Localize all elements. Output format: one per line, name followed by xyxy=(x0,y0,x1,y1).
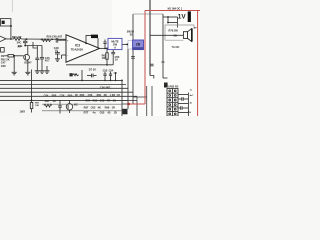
capacitor C52 xyxy=(103,72,106,81)
capacitor C53 xyxy=(131,57,135,59)
capacitor C42 vertical xyxy=(35,46,39,69)
svg-text:4U7: 4U7 xyxy=(45,59,50,63)
svg-text:1W2: 1W2 xyxy=(20,109,26,113)
wire vertical x163 xyxy=(162,14,164,78)
svg-text:1V: 1V xyxy=(178,14,187,21)
wire to speaker xyxy=(150,34,183,36)
svg-text:C6: C6 xyxy=(117,93,121,97)
background paper xyxy=(0,0,200,116)
wire xyxy=(178,103,188,105)
svg-text:C58: C58 xyxy=(60,94,65,98)
transistor Q6 xyxy=(66,101,72,114)
wire output xyxy=(100,47,109,49)
svg-text:4K: 4K xyxy=(98,106,101,110)
svg-text:R95: R95 xyxy=(93,98,98,102)
wire vertical x150 xyxy=(149,0,151,76)
svg-text:2K: 2K xyxy=(104,93,107,97)
svg-text:4N7: 4N7 xyxy=(45,99,50,103)
capacitor C43 xyxy=(23,39,28,46)
bus wire 3 xyxy=(0,87,128,89)
svg-text:1D: 1D xyxy=(114,111,117,115)
node M3 junction dot xyxy=(110,80,112,82)
wire row xyxy=(42,110,122,112)
svg-text:C63: C63 xyxy=(91,106,96,110)
op-amp U2 (small, left edge) xyxy=(0,34,6,43)
svg-text:BC: BC xyxy=(74,103,78,107)
wire xyxy=(33,42,37,48)
resistor R62 vertical xyxy=(106,48,108,64)
svg-text:R93: R93 xyxy=(80,93,85,97)
svg-text:1U: 1U xyxy=(55,48,58,52)
terminal block left xyxy=(1,48,5,53)
wire node row xyxy=(25,45,42,47)
svg-text:C64: C64 xyxy=(44,94,49,98)
svg-text:1u: 1u xyxy=(188,110,191,114)
svg-text:R94: R94 xyxy=(86,98,91,102)
connector P2 stack xyxy=(167,89,178,117)
capacitor C49 small xyxy=(103,40,106,49)
ground G1 xyxy=(12,72,17,75)
node H junction dot xyxy=(127,44,129,46)
svg-text:4n: 4n xyxy=(93,111,96,115)
svg-text:R88: R88 xyxy=(52,94,57,98)
op-amp IC3 triangle xyxy=(66,35,100,62)
svg-text:C65: C65 xyxy=(100,111,105,115)
pin - wire xyxy=(62,54,67,56)
capacitor C62 xyxy=(58,100,62,113)
svg-text:M1 1N4 OC 1: M1 1N4 OC 1 xyxy=(168,7,183,10)
dark blob bottom xyxy=(123,109,128,115)
capacitor C57 xyxy=(150,64,153,66)
capacitor C51 horizontal xyxy=(87,74,97,78)
svg-text:R99: R99 xyxy=(105,106,110,110)
svg-text:3B: 3B xyxy=(174,34,177,38)
ground G5 xyxy=(55,59,60,62)
wire vertical x188 xyxy=(187,93,189,117)
svg-text:R97: R97 xyxy=(84,106,89,110)
wire window corner gray xyxy=(133,13,163,15)
svg-text:R90: R90 xyxy=(68,94,73,98)
wire corner xyxy=(163,77,168,79)
ground G3 xyxy=(35,68,40,73)
resistor R46 xyxy=(14,38,22,41)
node I junction dot xyxy=(167,16,169,18)
red node dot xyxy=(127,103,130,106)
node M4 junction dot xyxy=(115,80,117,82)
bus wire 5 xyxy=(0,95,137,97)
wire rows right of connector xyxy=(178,94,188,96)
resistor R53 horizontal xyxy=(4,55,13,57)
wire corner xyxy=(150,76,154,79)
pin + wire xyxy=(62,39,66,41)
svg-text:BC547: BC547 xyxy=(24,61,32,64)
capacitor C74 xyxy=(178,106,188,110)
svg-text:4R: 4R xyxy=(107,98,110,102)
svg-text:4R: 4R xyxy=(73,72,76,76)
input terminal box J1 xyxy=(1,19,11,26)
svg-text:1 3R: 1 3R xyxy=(110,93,116,97)
wire faint top-left xyxy=(11,0,13,12)
wire vertical x133 xyxy=(132,14,134,104)
blue tag ZB xyxy=(126,40,143,50)
svg-text:R78 2W: R78 2W xyxy=(169,28,179,32)
resistor R87 vertical xyxy=(30,102,33,112)
bottom mid: resistor R86 xyxy=(44,104,52,107)
node C junction dot xyxy=(26,38,28,40)
capacitor C54 xyxy=(109,72,112,81)
svg-text:R50 C45 4U7: R50 C45 4U7 xyxy=(47,35,63,39)
ground G4 xyxy=(39,66,44,73)
bus wire 1 xyxy=(0,79,122,81)
svg-text:TDA2030: TDA2030 xyxy=(71,47,84,51)
wire xyxy=(167,17,169,23)
node E junction dot xyxy=(85,43,87,45)
capacitor C50 vertical xyxy=(111,50,115,65)
capacitor C48 xyxy=(55,51,60,59)
speaker LS1 xyxy=(183,28,192,41)
capacitor C45 xyxy=(56,38,62,43)
connector top mark xyxy=(164,83,168,88)
wire xyxy=(177,17,179,28)
svg-text:1U: 1U xyxy=(115,58,118,62)
ground G6 xyxy=(44,66,49,73)
svg-text:ZB: ZB xyxy=(136,43,141,47)
wire node to mute xyxy=(122,43,130,45)
enclosure box gray xyxy=(165,25,194,40)
wire vertical x115 xyxy=(115,73,117,81)
component dark small xyxy=(70,73,73,76)
bus wire 2 xyxy=(0,84,126,86)
node M junction dot xyxy=(81,80,83,82)
svg-text:-: - xyxy=(67,55,68,58)
wire vertical x122 xyxy=(121,80,123,116)
node K junction dot xyxy=(31,100,33,102)
svg-text:C52: C52 xyxy=(103,68,108,72)
svg-text:3U: 3U xyxy=(130,33,133,37)
node B junction dot xyxy=(10,38,12,40)
svg-text:1N: 1N xyxy=(113,98,116,102)
wire top h17 xyxy=(163,16,178,18)
labels / text xyxy=(1,7,197,114)
svg-text:D7 2V: D7 2V xyxy=(89,68,96,72)
node C49 junction dot xyxy=(104,48,106,50)
svg-text:1R: 1R xyxy=(112,106,115,110)
wire xyxy=(21,38,66,40)
node L junction dot xyxy=(121,80,123,82)
node D junction dot xyxy=(51,38,53,40)
wire down to ground xyxy=(13,56,15,73)
wire vertical x31 xyxy=(31,70,33,103)
node G junction dot xyxy=(106,64,108,66)
capacitor C70 thick bar xyxy=(188,11,191,22)
wire xyxy=(6,38,14,40)
blue box MUTE xyxy=(108,38,122,49)
wire h22 xyxy=(168,22,177,24)
svg-text:10N: 10N xyxy=(1,64,6,68)
bottom grid wires xyxy=(133,96,147,98)
svg-text:R77: R77 xyxy=(84,111,89,115)
node F junction dot xyxy=(106,48,108,50)
node A junction dot xyxy=(10,25,12,27)
tick xyxy=(161,61,164,63)
svg-text:10K: 10K xyxy=(35,105,39,107)
svg-text:1K: 1K xyxy=(75,93,78,97)
svg-text:C62: C62 xyxy=(100,98,105,102)
node M2 junction dot xyxy=(104,80,106,82)
ground G2 xyxy=(25,63,30,75)
svg-text:C56 4N7: C56 4N7 xyxy=(100,86,111,90)
svg-text:1N: 1N xyxy=(1,54,4,58)
svg-text:.40: .40 xyxy=(17,44,21,48)
svg-text:C66: C66 xyxy=(88,93,93,97)
node J junction dot xyxy=(167,22,169,24)
bus wire 6 xyxy=(0,99,128,101)
svg-text:A: A xyxy=(114,46,116,50)
svg-text:10R: 10R xyxy=(102,56,107,60)
node N junction dot xyxy=(24,45,26,47)
wire vertical x82 xyxy=(81,70,83,80)
svg-text:7A OC: 7A OC xyxy=(172,45,180,49)
svg-text:1R: 1R xyxy=(113,71,116,75)
wire bottom xyxy=(66,64,113,66)
svg-text:R91: R91 xyxy=(97,93,102,97)
feedback wire xyxy=(86,36,91,44)
node O junction dot xyxy=(13,55,15,57)
red annotation box xyxy=(129,11,201,117)
transistor Q3 xyxy=(24,46,30,64)
svg-text:R81 R82 R3: R81 R82 R3 xyxy=(164,84,179,88)
svg-text:1K: 1K xyxy=(53,99,56,103)
wire xyxy=(10,26,12,39)
wire xyxy=(97,38,99,48)
bus wire 4 xyxy=(0,91,133,93)
resistor R50 xyxy=(41,39,51,42)
wire base xyxy=(14,55,24,57)
capacitor C72 xyxy=(178,97,188,101)
svg-text:R46 1W: R46 1W xyxy=(12,35,22,39)
wire row2 xyxy=(42,103,122,105)
capacitor C44 vertical xyxy=(40,46,44,67)
wire xyxy=(178,112,188,114)
resistor R58 (filled) xyxy=(91,35,98,39)
resistor R80 xyxy=(73,74,79,76)
wire vertical x128 xyxy=(127,44,129,109)
